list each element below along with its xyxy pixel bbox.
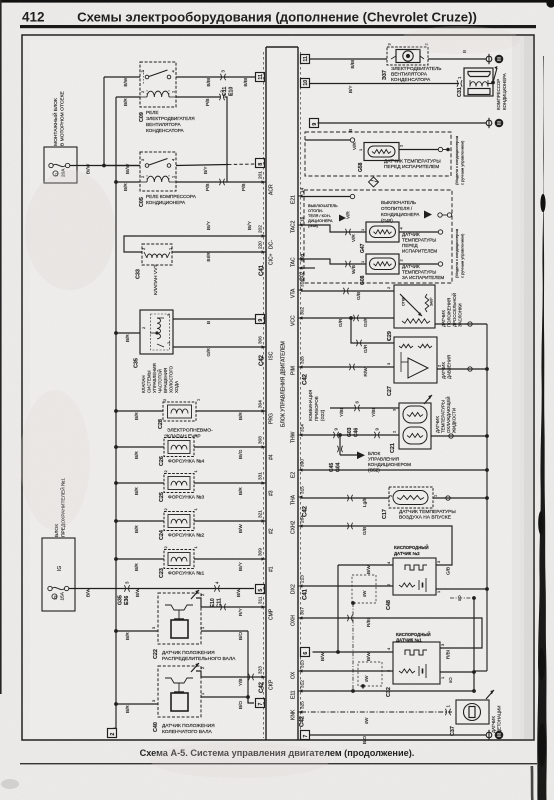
injector C24 pin numbers — [163, 508, 198, 511]
ref box 9 right line — [310, 119, 319, 128]
wire C27 output to bus — [437, 364, 488, 371]
injector C25 pin numbers — [163, 470, 198, 473]
wire C33 pin1 to CIC+ BI/R — [172, 252, 265, 262]
node bus C27 — [485, 367, 489, 371]
relay C09 caption — [146, 110, 195, 133]
region A note — [454, 136, 465, 185]
wire PIM to C27 R/W — [301, 362, 394, 377]
sensor G08 caption — [402, 264, 444, 280]
ECU pin 302 VCC — [291, 307, 305, 326]
wire TAC2 to G47 V/R — [301, 225, 366, 242]
wire injector C25 signal B/R — [194, 483, 265, 495]
wire CXH2 G/B to C48 pin3 — [301, 523, 452, 575]
wire C40 pin2 Y/B to CKP — [196, 666, 265, 686]
dashed region B heater AC switch — [304, 190, 452, 283]
knock sensor C37 caption — [491, 706, 502, 733]
sensor G08 pin2 wire — [399, 259, 443, 267]
wire E2 to bus — [301, 469, 487, 471]
heater AC switch text block right — [381, 200, 420, 223]
oxygen sensor C48 heater — [405, 565, 427, 570]
oxygen sensor C32 box — [393, 642, 440, 684]
compressor caption — [496, 73, 507, 110]
node bus E2 — [485, 468, 489, 472]
branch to AC control unit — [337, 435, 365, 459]
valve C35 coil element — [150, 318, 164, 347]
wire ref11 to fan motor B/BI — [309, 59, 387, 69]
fuse block 1 box — [44, 147, 77, 183]
ECU pin 314 THW — [291, 424, 305, 443]
wire THA to C17 Lg/B — [301, 495, 389, 507]
wire fuse2 B/W to ref5 — [69, 588, 254, 597]
relay C09 pin numbers — [140, 70, 176, 94]
connector on G47 wire — [345, 229, 350, 235]
connector G35/E36 — [124, 585, 129, 591]
left edge scan line — [0, 0, 2, 694]
ECU pin 14 E21 — [291, 187, 305, 204]
wire ref10 to compressor B/Y — [309, 84, 459, 94]
fan motor E37 caption — [391, 66, 441, 83]
wire P/B down to ACR row — [225, 97, 228, 182]
valve C33 VVT box — [142, 244, 172, 265]
ECU pin 323 CKP — [258, 666, 275, 690]
valve C33 pin numbers — [141, 247, 173, 250]
wire THW to C21 — [301, 408, 399, 435]
wire C35 pin1 G/R to ISC — [173, 347, 265, 357]
shield link dashdot — [450, 596, 476, 600]
node C35 feed — [114, 331, 118, 335]
node injector C23 feed — [114, 557, 118, 561]
node C05 coil left junction — [114, 180, 118, 184]
wire G58 feed V/R — [305, 138, 357, 150]
valve C33 coil — [144, 252, 170, 258]
ref box 11 left line — [256, 73, 265, 82]
left B/R bus — [115, 97, 117, 728]
wire KNK shielded to knock sensor — [301, 705, 452, 725]
sensor G58 pin2 wire — [399, 144, 450, 152]
wire B/O down bus — [247, 631, 249, 703]
ECU pin 220 CIC+ — [258, 241, 275, 265]
wire E21 row stub — [301, 194, 355, 198]
fuse F23 15A — [48, 586, 69, 600]
wire VTA to C29 G/BI — [301, 286, 394, 300]
connector label G35 E36 — [118, 595, 131, 605]
bottom left scan smudge — [1, 779, 19, 789]
node B/O join — [246, 695, 250, 699]
relay C09 box — [140, 62, 176, 107]
heater AC switch arrow left — [339, 215, 346, 222]
ECU left dashed companion — [263, 52, 265, 738]
wire C09 out B/BI to ref11 — [176, 77, 256, 87]
wire fan motor to ground B — [428, 50, 486, 59]
ECU pin 311 CMP — [258, 596, 275, 620]
inline diamond connector — [369, 177, 379, 187]
wire OXH R/BI to C32 pin3 — [301, 615, 482, 659]
wire C40 pin3 B/R — [116, 699, 158, 713]
ECU pin 264 CXH2 — [291, 515, 305, 534]
switch arrow and contacts — [424, 211, 452, 219]
intake air sensor C17 caption — [399, 509, 456, 521]
sensor ground bus right — [486, 324, 488, 671]
wire C48 pin1 sO to bus — [436, 589, 487, 601]
wire TAC to G08 W/B — [301, 259, 366, 274]
right edge lower streak — [531, 766, 534, 800]
compressor C31 box — [464, 68, 493, 96]
region B note — [454, 229, 465, 278]
injector C26 pin numbers — [163, 434, 198, 437]
TPS sensor C29 box — [394, 285, 435, 328]
wire injector C26 signal BI/G — [194, 447, 265, 459]
wire C17 to bus — [433, 496, 487, 500]
connector C11/E10 on row77 — [220, 74, 225, 80]
wire C29 output to bus — [435, 322, 487, 326]
injector C25 box — [164, 474, 194, 493]
injector C24 coil — [171, 519, 187, 523]
wire injector C26 left B/R — [116, 447, 164, 459]
ECU pin 325 KNK — [291, 701, 305, 720]
ECU pin 316 G02 — [298, 254, 306, 281]
relay C05 box — [140, 152, 176, 191]
combination meter caption — [308, 390, 325, 421]
injector C23 pin numbers — [163, 546, 198, 549]
relay C09 switch — [144, 70, 171, 84]
TPS internals — [400, 294, 434, 323]
oxygen sensor C32 designator — [386, 647, 445, 697]
fuse block 2 box — [42, 538, 75, 611]
MAP internals — [399, 344, 432, 378]
node sO join — [472, 670, 476, 674]
ECU top cap — [266, 46, 298, 48]
connector on CKP row — [248, 674, 253, 680]
EVAP C28 pin numbers — [162, 398, 201, 401]
relay C05 switch — [145, 159, 171, 168]
sensor G47 box — [366, 222, 399, 242]
wire C09 coil return P/B — [176, 97, 220, 106]
sensor G58 box — [364, 143, 399, 161]
footer rule — [20, 763, 537, 764]
sensor C40 pickup element — [165, 678, 193, 711]
node injector C24 feed — [114, 519, 118, 523]
wire G02 stub — [301, 267, 315, 269]
ECU pin 1 TAC — [291, 253, 305, 267]
wire C35 pin3 B to ref9 — [173, 319, 256, 324]
ECU pin 202 DC- — [258, 225, 275, 249]
fan motor E37 pin numbers — [387, 43, 429, 46]
ref box 8 left line — [256, 159, 265, 168]
EVAP C28 caption — [167, 428, 213, 440]
ECU pin 307 OXH — [291, 607, 305, 626]
fan motor E37 symbol — [391, 50, 424, 63]
fan motor E37 box — [387, 47, 428, 65]
sensor G08 box — [366, 254, 399, 274]
injector C24 box — [164, 512, 194, 531]
ground point row123 — [486, 118, 503, 128]
node C22 feed — [114, 629, 118, 633]
bus link to riser — [474, 670, 487, 672]
shield OX ground drop — [361, 684, 365, 691]
node EVAP feed — [114, 409, 118, 413]
intake air sensor C17 box — [389, 487, 433, 508]
node junction at x104 — [102, 164, 106, 168]
sensor G47 caption — [402, 232, 437, 254]
ground point fan motor — [486, 54, 503, 64]
connector on row97 — [219, 94, 224, 100]
wire heater B/W from ref6 — [313, 652, 394, 661]
node C40 feed — [114, 702, 118, 706]
relay C05 caption — [146, 194, 197, 205]
wire C22 pin3 B/R — [116, 626, 158, 640]
ECU pin 310 VTA — [291, 279, 305, 298]
node injector C26 feed — [114, 445, 118, 449]
valve C35 ISC box — [140, 310, 173, 354]
oxygen sensor 1 header — [396, 632, 431, 643]
valve C35 pin numbers — [141, 313, 171, 344]
sensor C22 trim arrow — [191, 590, 199, 599]
ECU right boundary line — [297, 47, 299, 740]
coolant sensor C21 caption — [435, 396, 457, 433]
heater supply riser — [337, 565, 339, 652]
ECU pin 201 ACR — [258, 171, 275, 195]
wire EVAP left B/R — [116, 411, 163, 420]
ref box 9 left line — [256, 315, 265, 324]
header thick rule — [20, 25, 536, 28]
wire injector C25 left B/R — [116, 483, 164, 495]
MAP C27 caption — [441, 355, 452, 379]
ECU pin 321 #2 — [258, 510, 275, 534]
ref box 6 right line — [301, 648, 310, 657]
node bus C17 — [485, 496, 489, 500]
oxygen sensor C32 heater — [405, 650, 427, 655]
oxygen sensor C48 cell — [399, 578, 426, 592]
ref box 5 left line — [256, 585, 265, 594]
ECU pin 390 E2 — [291, 459, 305, 478]
intake air sensor C17 designator — [382, 494, 438, 519]
fuse block 1 МОНТАЖНЫЙ БЛОК caption — [51, 90, 66, 146]
sensor C40 caption — [162, 723, 215, 735]
node injector C25 feed — [114, 481, 118, 485]
right edge scan streak — [537, 56, 547, 800]
shield box DX2 — [352, 575, 376, 603]
node bus C48 — [485, 587, 489, 591]
fuse block 2 caption — [54, 478, 67, 537]
wire VCC G/R — [301, 315, 394, 327]
wire C33 pin2 up to DC- row BI/Y — [124, 220, 265, 252]
black dot top right corner — [546, 0, 554, 8]
injector C25 coil — [171, 481, 187, 485]
coolant sensor C21 elements — [403, 406, 427, 444]
wire fuse1 to relay C05 feed — [104, 165, 140, 167]
ECU pin 312 E11 — [291, 680, 305, 699]
relay C05 pin numbers — [140, 158, 176, 178]
wire C40 pin1 B/O — [200, 692, 248, 709]
wire riser to relay C09 — [103, 77, 105, 166]
relay C09 coil — [140, 90, 176, 97]
node THW branch — [338, 433, 342, 437]
sensor G47 pin4 wire — [399, 227, 443, 235]
injector C26 box — [164, 438, 194, 457]
injector C23 coil — [171, 557, 187, 561]
oxygen sensor C48 box — [393, 558, 436, 595]
ground point bottom — [486, 730, 503, 740]
node heater riser join — [336, 650, 340, 654]
connector label E10 C11 lower — [210, 598, 223, 607]
connector on ACR row — [219, 179, 224, 185]
connector E10/C11 lower — [214, 585, 219, 591]
sensor G58 caption — [384, 159, 441, 171]
ECU left boundary line — [265, 47, 267, 740]
wire OX to C32 signal — [301, 671, 393, 682]
wire C32 pin1 sO — [440, 672, 474, 683]
wire VCC branch to C27 G/R — [351, 318, 394, 353]
wire C05 coil return P/B to ACR — [176, 182, 265, 191]
wire E11 row — [301, 689, 476, 693]
coolant sensor C21 trim arrow — [424, 395, 432, 404]
ref box 2 bottom of bus — [108, 728, 117, 738]
ECU pin 308 #4 — [258, 436, 275, 460]
connector label C45 G04 — [329, 462, 342, 472]
ECU pin 213 DX2 — [291, 575, 305, 594]
right margin scan shading — [512, 36, 534, 740]
coolant sensor C21 box — [399, 403, 431, 449]
sensor return riser — [473, 598, 475, 691]
connector label C11 E10 top — [222, 87, 235, 96]
ECU pin 331 #3 — [258, 472, 275, 496]
shield ground drop — [351, 601, 355, 691]
oxygen sensor 2 header — [394, 545, 429, 556]
right edge streak knots — [540, 194, 545, 212]
sensor C22 box — [158, 593, 201, 644]
wire injector C23 signal BI/Y — [194, 559, 265, 571]
wire C35 pin2 B/R — [116, 333, 140, 342]
dashed region A manual AC models — [305, 132, 451, 176]
wire C48 heater B/W — [338, 565, 393, 574]
oxygen sensor C32 cell — [399, 664, 426, 678]
ECU pin 306 ISC — [258, 336, 275, 360]
oxygen sensor C48 designator — [386, 561, 441, 610]
wire fuse1 to junction BI/W — [70, 163, 140, 174]
scan noise texture — [0, 0, 1, 1]
injector C23 box — [164, 550, 194, 569]
TPS C29 caption — [441, 293, 463, 327]
connector label G03 C46 — [347, 427, 360, 437]
wire ref9 to ground B — [318, 123, 487, 132]
fuse F11 20A — [49, 163, 70, 177]
node bus C21 — [485, 434, 489, 438]
top edge black bar — [0, 0, 554, 3]
knock sensor C37 box — [456, 700, 489, 724]
wire meter to C21 Y/BI — [330, 408, 399, 417]
wire B/O to ref7 — [248, 697, 254, 703]
EVAP valve C28 coil — [171, 409, 188, 414]
ref box 11 right line — [301, 55, 310, 64]
wire injector C24 left B/R — [116, 521, 164, 533]
wire C22 pin2 R/Y to CMP — [196, 593, 265, 616]
relay C05 coil — [140, 175, 176, 182]
wire C22 pin1 B/O — [200, 626, 248, 640]
valve C35 caption — [141, 363, 179, 393]
valve C35 inner dashed — [151, 314, 170, 350]
node VCC branch — [349, 316, 353, 320]
connector on CMP row — [220, 604, 225, 610]
ECU pin 304 PRG — [258, 400, 275, 424]
sensor C22 pickup element — [165, 605, 193, 638]
wire C05 out B/Y to ref8 — [176, 164, 256, 174]
connector G03/C46 — [354, 405, 359, 411]
sensor G47 designator — [360, 228, 366, 253]
sensor C22 caption — [162, 650, 236, 662]
wire ref7 to ground B/O — [309, 735, 486, 744]
MAP sensor C27 box — [394, 337, 437, 383]
sensor G58 designator — [358, 148, 364, 172]
ECU right dashed companion — [300, 52, 302, 738]
ECU pin 16 TAC2 — [291, 216, 305, 233]
ECU pin 313 OX — [291, 660, 305, 679]
ref box 7 right line — [301, 731, 310, 740]
wire C05 coil left B/R — [116, 182, 140, 191]
ECU pin 315 THA — [291, 486, 305, 505]
EVAP valve C28 box — [163, 402, 196, 421]
scan mottling patches — [25, 170, 115, 290]
injector C26 coil — [171, 445, 187, 449]
connector compressor pin1 — [457, 80, 462, 86]
knock sensor C37 trim arrow — [486, 690, 494, 699]
ref box 7 left line — [256, 699, 265, 708]
ref box 10 right line — [301, 79, 310, 88]
shield box OX — [358, 662, 382, 686]
wire C09 coil left B/R — [116, 97, 140, 106]
wire injector C23 left B/R — [116, 559, 164, 571]
wire C21 out to bus — [431, 434, 487, 438]
sensor C40 box — [158, 666, 201, 717]
wire injector C24 signal B/W — [194, 521, 265, 533]
wire C09 switch feed B/W — [104, 77, 140, 87]
wire compressor to ground arrow — [488, 66, 498, 84]
connector on G08 wire — [345, 261, 350, 267]
sensor C40 trim arrow — [191, 663, 199, 672]
heater AC switch text block left — [308, 203, 338, 228]
ECU pin 309 #1 — [258, 548, 275, 572]
wire EVAP to PRG B/R — [196, 411, 265, 420]
ECU pin 326 PIM — [291, 356, 305, 375]
wire DX2 to C48 signal — [301, 586, 393, 597]
sensor G08 designator — [360, 260, 366, 285]
connectors on THW row — [333, 428, 379, 439]
AC control unit caption — [368, 451, 411, 473]
